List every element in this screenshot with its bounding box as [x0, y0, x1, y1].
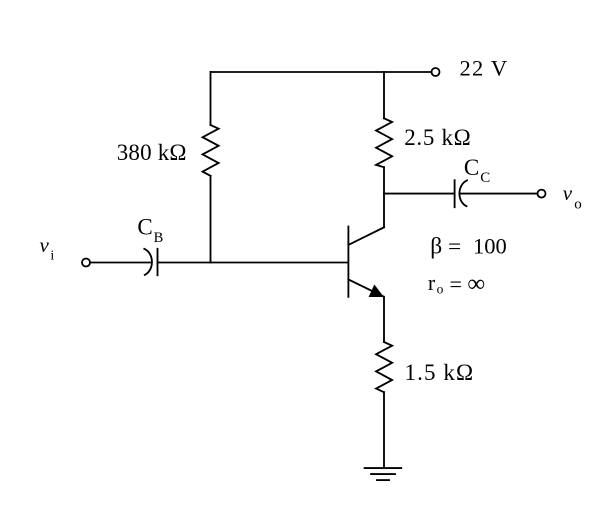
capacitor C_C straight plate [454, 180, 456, 207]
capacitor C_B straight plate [157, 249, 159, 275]
svg-text:B: B [154, 230, 164, 246]
input terminal circle [82, 259, 90, 267]
wire C_B to base [158, 262, 348, 264]
svg-text:β: β [430, 233, 442, 259]
resistor 380k zigzag [203, 125, 219, 176]
wire C_C to output terminal [461, 193, 538, 195]
wire top rail [211, 71, 432, 73]
svg-text:1.5 kΩ: 1.5 kΩ [405, 360, 475, 385]
svg-text:C: C [464, 155, 479, 180]
svg-text:o: o [574, 197, 582, 213]
wire right branch upper [383, 72, 385, 118]
resistor 1.5k zigzag [376, 342, 392, 392]
wire emitter down [383, 297, 385, 342]
svg-text:r: r [428, 270, 436, 295]
transistor Q1 base bar [347, 227, 349, 297]
svg-text:100: 100 [473, 233, 507, 258]
wire input to C_B [90, 262, 151, 264]
ground middle bar [371, 473, 395, 475]
svg-text:380 kΩ: 380 kΩ [117, 140, 187, 165]
svg-text:v: v [563, 181, 573, 205]
svg-text:o: o [437, 282, 444, 297]
svg-text:22 V: 22 V [460, 55, 509, 80]
wire collector node down to transistor [383, 194, 385, 228]
wire left branch upper [210, 72, 212, 125]
svg-text:C: C [480, 170, 490, 186]
ground top bar [365, 467, 402, 469]
svg-text:=: = [448, 233, 461, 258]
wire collector node to C_C [384, 193, 455, 195]
svg-text:2.5 kΩ: 2.5 kΩ [404, 125, 471, 150]
transistor Q1 collector lead [348, 227, 384, 245]
svg-text:v: v [40, 233, 50, 257]
transistor Q1 emitter arrowhead [369, 285, 383, 296]
wire 1.5k to ground [383, 392, 385, 468]
22V terminal circle [432, 68, 440, 76]
capacitor C_C curved plate [459, 180, 466, 206]
capacitor C_B curved plate [144, 249, 152, 275]
wire 2.5k to collector node [383, 167, 385, 193]
svg-text:i: i [50, 248, 54, 263]
transistor Q1 emitter lead [348, 280, 383, 297]
wire left branch lower [210, 176, 212, 263]
resistor 2.5k zigzag [376, 118, 392, 167]
svg-text:= ∞: = ∞ [444, 271, 485, 298]
ground bottom bar [377, 479, 389, 481]
svg-text:C: C [137, 215, 152, 240]
output terminal circle [538, 190, 546, 198]
